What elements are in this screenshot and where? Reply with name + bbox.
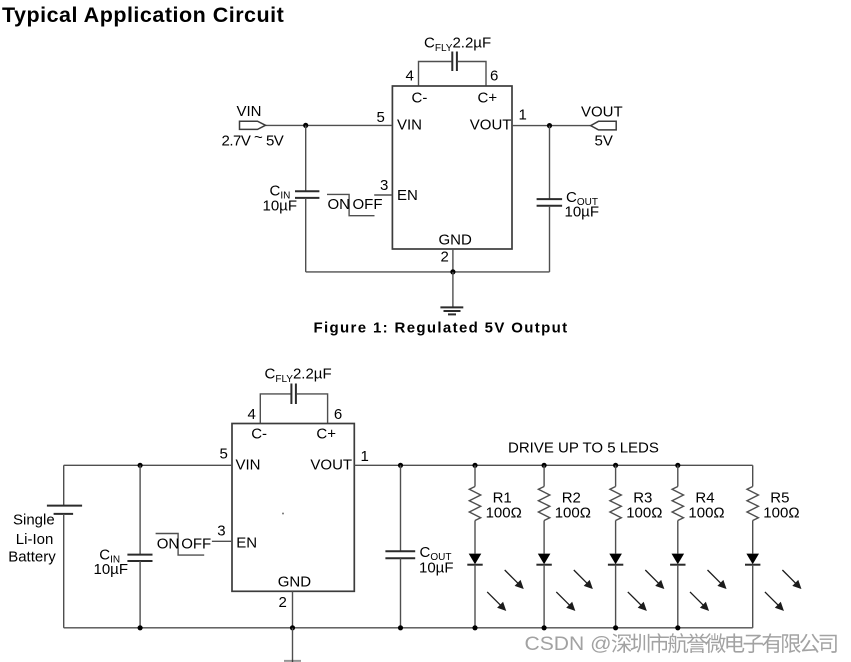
svg-text:CFLY2.2µF: CFLY2.2µF	[424, 35, 491, 55]
battery positive lead	[63, 465, 65, 505]
svg-text:10µF: 10µF	[419, 560, 454, 577]
svg-text:GND: GND	[278, 573, 312, 590]
battery cell plates	[47, 506, 82, 514]
wire: resistor R1 to LED	[474, 521, 476, 554]
capacitor CIN (fig.1) plates	[295, 191, 319, 198]
ground symbol (fig.2, clipped at page edge)	[284, 660, 301, 662]
wire: flying-cap loop pin4 to pin6 (fig.1)	[419, 62, 487, 87]
node: LED string 4 bottom junction	[675, 625, 680, 630]
ON/OFF control waveform (fig.1)	[327, 194, 375, 215]
ground symbol (fig.1)	[440, 272, 463, 315]
svg-text:DRIVE UP TO 5 LEDS: DRIVE UP TO 5 LEDS	[508, 440, 659, 457]
wire: flying-cap loop pin4 to pin6 (fig.2)	[260, 394, 327, 424]
svg-text:C+: C+	[478, 90, 498, 107]
capacitor COUT (fig.2) plates	[385, 551, 415, 558]
LED D4 emission arrows	[690, 570, 726, 610]
svg-text:3: 3	[217, 523, 225, 540]
svg-text:VIN: VIN	[397, 117, 422, 134]
wire: rail to resistor R2	[543, 465, 545, 486]
svg-text:GND: GND	[439, 232, 473, 249]
svg-text:VIN: VIN	[237, 103, 262, 120]
wire: junction down to CIN (fig.2)	[139, 465, 141, 554]
wire: CIN to ground bus (fig.2)	[139, 561, 141, 628]
wire: IC VOUT to LED rail (fig.2)	[354, 464, 752, 466]
svg-text:OFF: OFF	[353, 196, 383, 213]
node: LED string 2 top junction	[542, 463, 547, 468]
svg-text:VOUT: VOUT	[581, 103, 623, 120]
svg-text:100Ω: 100Ω	[626, 504, 662, 521]
svg-text:C-: C-	[412, 90, 428, 107]
wire: EN stub to IC pin 3 (fig.1)	[374, 194, 392, 196]
stray mark inside IC (fig.2)	[282, 513, 284, 515]
node: LED string 1 top junction	[472, 463, 477, 468]
ON/OFF control waveform (fig.2)	[156, 534, 205, 556]
svg-text:5V: 5V	[595, 132, 613, 149]
resistor R5	[747, 487, 758, 521]
svg-text:Li-Ion: Li-Ion	[16, 531, 54, 548]
LED D3	[608, 554, 623, 565]
svg-text:VIN: VIN	[236, 456, 261, 473]
wire: rail to resistor R4	[677, 465, 679, 486]
svg-text:C-: C-	[251, 425, 267, 442]
wire: LED D5 to ground bus	[752, 565, 754, 628]
node: LED string 4 top junction	[675, 463, 680, 468]
svg-text:ON: ON	[328, 196, 351, 213]
resistor R3	[610, 487, 621, 521]
svg-text:100Ω: 100Ω	[555, 504, 591, 521]
wire: IC pin1 VOUT to output tag	[512, 125, 591, 127]
VOUT output tag	[591, 121, 617, 130]
svg-text:VOUT: VOUT	[470, 117, 512, 134]
svg-text:2: 2	[441, 249, 449, 266]
node: LED string 1 bottom junction	[472, 625, 477, 630]
wire: resistor R2 to LED	[543, 521, 545, 554]
svg-text:Battery: Battery	[8, 548, 56, 565]
wire: LED D1 to ground bus	[474, 565, 476, 628]
wire: junction down to CIN (fig.1)	[305, 125, 307, 191]
node: CIN bottom junction	[138, 625, 143, 630]
node: VOUT / COUT junction (fig.1)	[547, 123, 552, 128]
op IC U1 (fig.1 charge-pump)	[392, 86, 512, 249]
svg-text:CSDN @: CSDN @	[525, 634, 612, 655]
LED D3 emission arrows	[628, 570, 664, 610]
svg-text:3: 3	[380, 177, 388, 194]
svg-text:100Ω: 100Ω	[763, 504, 799, 521]
svg-text:OFF: OFF	[181, 536, 211, 553]
node: GND stub junction	[290, 625, 295, 630]
svg-text:4: 4	[406, 68, 414, 85]
node: VIN / CIN junction (fig.1)	[303, 123, 308, 128]
node: LED string 3 top junction	[613, 463, 618, 468]
svg-text:Single: Single	[13, 511, 55, 528]
LED D2 emission arrows	[556, 570, 592, 610]
svg-text:C+: C+	[316, 425, 336, 442]
svg-text:2: 2	[279, 594, 287, 611]
svg-text:6: 6	[334, 406, 342, 423]
svg-text:CFLY2.2µF: CFLY2.2µF	[265, 366, 332, 386]
wire: rail to resistor R1	[474, 465, 476, 486]
svg-text:Typical Application Circuit: Typical Application Circuit	[2, 3, 284, 27]
svg-text:1: 1	[361, 448, 369, 465]
svg-text:100Ω: 100Ω	[688, 504, 724, 521]
wire: LED D4 to ground bus	[677, 565, 679, 628]
capacitor COUT (fig.1) plates	[537, 199, 563, 206]
capacitor CIN (fig.2) plates	[127, 555, 152, 561]
svg-text:100Ω: 100Ω	[486, 504, 522, 521]
svg-text:10µF: 10µF	[263, 198, 298, 215]
wire: COUT to ground bus (fig.2)	[400, 558, 402, 628]
wire: ground bus (fig.1)	[306, 271, 550, 273]
LED D4	[670, 554, 685, 565]
svg-text:VOUT: VOUT	[310, 456, 352, 473]
wire: LED D3 to ground bus	[615, 565, 617, 628]
wire: EN stub to IC pin 3 (fig.2)	[212, 540, 232, 542]
node: ground bus junction (fig.1)	[450, 269, 455, 274]
wire: VIN input to IC pin 5	[265, 124, 392, 126]
wire: IC pin2 GND stub (fig.1)	[452, 249, 454, 272]
node: COUT junction top	[398, 463, 403, 468]
svg-text:10µF: 10µF	[94, 561, 129, 578]
resistor R2	[538, 487, 549, 521]
capacitor C_FLY (fig.1) plates	[452, 52, 457, 72]
svg-text:5: 5	[220, 446, 228, 463]
wire: COUT to ground bus (fig.1)	[549, 206, 551, 272]
watermark company name (CJK glyph outlines)	[612, 633, 837, 653]
svg-text:5: 5	[377, 109, 385, 126]
resistor R1	[469, 487, 480, 521]
svg-text:Figure 1: Regulated 5V Output: Figure 1: Regulated 5V Output	[314, 320, 569, 337]
LED D5	[745, 554, 760, 565]
wire: ground lead below bus (fig.2)	[292, 628, 294, 662]
wire: resistor R3 to LED	[615, 521, 617, 554]
node: COUT bottom junction	[398, 625, 403, 630]
LED D1 emission arrows	[487, 570, 523, 610]
node: LED string 2 bottom junction	[542, 625, 547, 630]
op IC U1 (fig.2 charge-pump)	[232, 424, 354, 592]
wire: resistor R4 to LED	[677, 521, 679, 554]
wire: battery to IC pin 5 VIN (fig.2)	[64, 464, 232, 466]
svg-text:EN: EN	[236, 535, 257, 552]
LED D1	[467, 554, 482, 565]
svg-text:ON: ON	[157, 536, 180, 553]
node: LED string 3 bottom junction	[613, 625, 618, 630]
wire: ground bus (fig.2)	[64, 627, 753, 629]
wire: rail to resistor R3	[615, 465, 617, 486]
svg-text:6: 6	[490, 68, 498, 85]
svg-text:10µF: 10µF	[565, 204, 600, 221]
svg-text:1: 1	[519, 107, 527, 124]
wire: junction down to COUT (fig.1)	[549, 126, 551, 199]
capacitor C_FLY (fig.2) plates	[291, 384, 296, 405]
LED D2	[536, 554, 551, 565]
wire: rail to resistor R5	[752, 465, 754, 486]
svg-text:2.7V ~ 5V: 2.7V ~ 5V	[222, 129, 284, 150]
LED D5 emission arrows	[765, 570, 801, 610]
resistor R4	[672, 487, 683, 521]
wire: IC pin2 GND stub to bus (fig.2)	[292, 591, 294, 628]
VIN input tag	[240, 121, 266, 129]
wire: CIN to ground bus (fig.1)	[305, 198, 307, 272]
node: VIN / CIN junction (fig.2)	[138, 463, 143, 468]
wire: LED D2 to ground bus	[543, 565, 545, 628]
battery negative lead	[63, 514, 65, 628]
svg-text:EN: EN	[397, 187, 418, 204]
wire: resistor R5 to LED	[752, 521, 754, 554]
svg-text:4: 4	[248, 406, 256, 423]
wire: junction down to COUT (fig.2)	[400, 465, 402, 551]
